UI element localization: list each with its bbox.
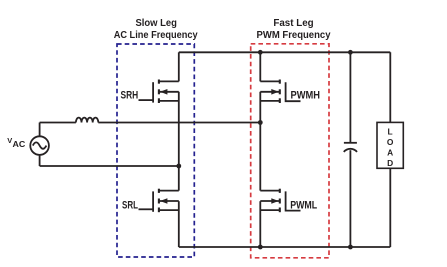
load box [377, 122, 403, 168]
transistor PWMH [260, 80, 300, 104]
transistor SRH [139, 80, 179, 104]
node bottom rail fast leg [258, 245, 263, 250]
wire load bottom lead [389, 168, 391, 247]
wire VAC bottom lead [39, 155, 41, 166]
transistor SRL [139, 189, 179, 213]
node slow leg midpoint [176, 164, 181, 169]
wire VAC to inductor [40, 122, 76, 124]
wire bottom rail [179, 246, 390, 248]
wire fast leg drain to top rail [259, 52, 261, 81]
wire capacitor bottom lead [349, 150, 351, 247]
fast leg dashed box [251, 44, 329, 258]
wire slow leg SRH source to SRL drain [178, 92, 180, 191]
svg-text:O: O [387, 137, 394, 147]
svg-text:AC Line Frequency: AC Line Frequency [114, 30, 198, 41]
svg-text:AC: AC [13, 139, 26, 149]
transistor PWML [260, 189, 300, 213]
svg-text:A: A [387, 148, 393, 158]
svg-text:PWMH: PWMH [291, 90, 321, 102]
node top rail fast leg [258, 50, 263, 55]
wire VAC to slow leg midpoint [40, 165, 179, 167]
voltage source VAC [30, 136, 49, 155]
label VAC [7, 136, 25, 149]
wire VAC top lead [39, 123, 41, 137]
node bottom rail capacitor [348, 245, 353, 250]
svg-text:PWM Frequency: PWM Frequency [257, 30, 331, 41]
wire load top lead [389, 52, 391, 122]
svg-text:SRH: SRH [121, 90, 139, 102]
wire slow leg drain to top rail [178, 52, 180, 81]
node top rail capacitor [348, 50, 353, 55]
svg-text:L: L [388, 126, 393, 136]
wire fast leg PWMH source to PWML drain [259, 92, 261, 191]
svg-text:Slow Leg: Slow Leg [135, 18, 177, 29]
wire capacitor top lead [349, 52, 351, 142]
wire slow leg SRL source to bottom rail [178, 201, 180, 247]
capacitor [344, 143, 357, 152]
wire fast leg PWML source to bottom rail [259, 201, 261, 247]
wire top rail [179, 51, 390, 53]
svg-text:Fast Leg: Fast Leg [273, 18, 313, 29]
svg-text:D: D [387, 158, 393, 168]
slow leg dashed box [117, 44, 194, 257]
inductor [76, 118, 98, 123]
svg-text:PWML: PWML [290, 199, 317, 211]
node fast leg midpoint [258, 120, 263, 125]
svg-text:SRL: SRL [122, 199, 138, 211]
wire inductor to fast leg midpoint [98, 122, 260, 124]
label LOAD [387, 126, 394, 168]
